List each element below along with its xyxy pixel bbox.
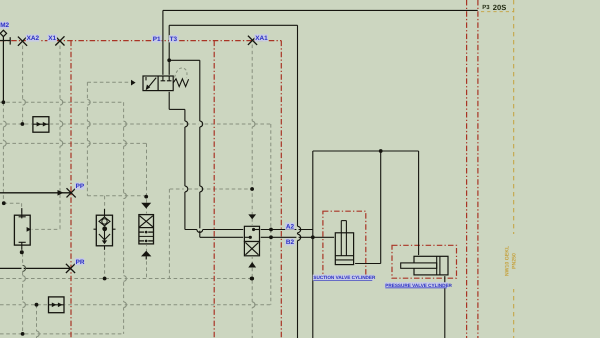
svg-text:B2: B2 <box>286 239 295 246</box>
svg-text:PN250: PN250 <box>512 253 518 269</box>
svg-text:SUCTION VALVE CYLINDER: SUCTION VALVE CYLINDER <box>313 275 376 280</box>
svg-text:20S: 20S <box>493 3 507 12</box>
svg-text:P1: P1 <box>153 36 161 43</box>
svg-text:T3: T3 <box>170 36 178 43</box>
svg-text:PP: PP <box>76 183 85 190</box>
svg-text:NW10 GEKL: NW10 GEKL <box>505 245 511 276</box>
svg-text:XA2: XA2 <box>27 35 40 42</box>
svg-text:X1: X1 <box>48 35 56 42</box>
svg-text:PR: PR <box>76 259 85 266</box>
svg-text:XA1: XA1 <box>255 35 268 42</box>
svg-text:A2: A2 <box>286 223 295 230</box>
svg-text:M2: M2 <box>0 22 9 29</box>
svg-text:P3: P3 <box>482 4 490 11</box>
svg-text:PRESSURE VALVE CYLINDER: PRESSURE VALVE CYLINDER <box>385 283 452 288</box>
